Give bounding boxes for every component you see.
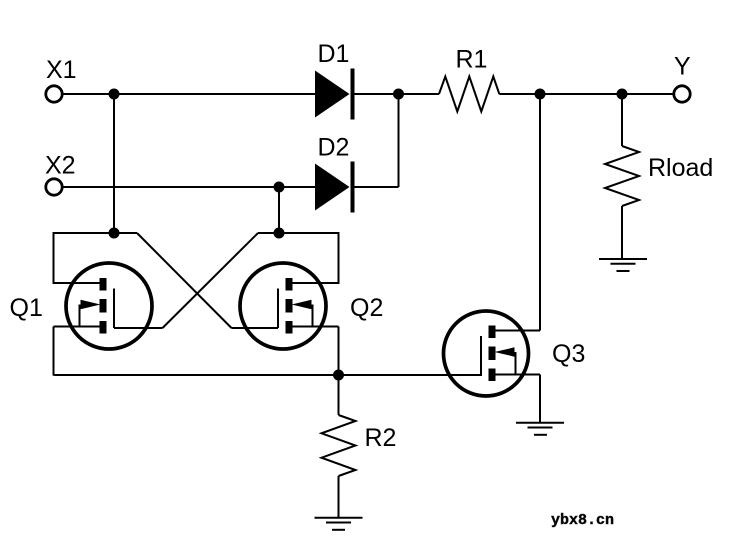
svg-text:Q1: Q1 (10, 294, 43, 322)
node junction D1/D2 outputs (393, 89, 404, 100)
wire bottom rail to Q3 gate (54, 374, 481, 376)
transistor Q1 (54, 263, 163, 349)
wire Q3 source down to ground (539, 375, 541, 424)
svg-text:X2: X2 (45, 152, 76, 180)
wire cross-couple left rail to Q2 gate (137, 233, 232, 328)
wire R1 to terminal Y (499, 93, 673, 95)
svg-text:Rload: Rload (648, 154, 713, 182)
wire Rload top (621, 94, 623, 146)
wire X2 to D2 anode (63, 186, 316, 188)
svg-text:D2: D2 (318, 134, 350, 162)
svg-text:Q3: Q3 (552, 340, 585, 368)
node junction left rail (109, 228, 120, 239)
wire Rload bottom (621, 206, 623, 259)
wire Q1 source down to bottom rail (53, 327, 55, 376)
svg-text:X1: X1 (46, 56, 77, 84)
node junction on X2 wire (274, 182, 285, 193)
wire R2 bottom (338, 476, 340, 518)
node junction on X1 wire (109, 89, 120, 100)
terminal X2 (46, 179, 62, 195)
ground for R2 (315, 518, 363, 530)
diode D2 (315, 162, 355, 213)
terminal X1 (46, 86, 62, 102)
wire D1 cathode to R1 (355, 93, 440, 95)
resistor R2 (322, 415, 356, 476)
node junction Q3 drain (535, 89, 546, 100)
terminal Y (674, 86, 690, 102)
ground for Rload (599, 259, 647, 271)
svg-text:ybx8.cn: ybx8.cn (551, 512, 614, 529)
svg-text:R2: R2 (365, 424, 397, 452)
ground for Q3 (516, 423, 564, 435)
wire right rail down to Q2 drain (338, 232, 340, 284)
node junction right rail (274, 228, 285, 239)
wire X1 junction down to left rail (113, 94, 115, 233)
resistor R1 (439, 77, 499, 112)
wire X1 to D1 anode (63, 93, 316, 95)
wire X2 junction down to right rail (278, 187, 280, 233)
wire R2 top (338, 375, 340, 415)
transistor Q2 (232, 263, 339, 349)
wire Q2 source down to bottom rail (338, 327, 340, 376)
node junction Rload (617, 89, 628, 100)
wire D2 output up to D1 output (398, 94, 400, 187)
wire cross-couple right rail to Q1 gate (163, 233, 259, 328)
transistor Q3 (444, 311, 541, 396)
resistor Rload (605, 146, 639, 206)
wire D2 cathode right (355, 186, 399, 188)
node junction R2 (333, 370, 344, 381)
svg-text:D1: D1 (318, 40, 350, 68)
svg-text:Q2: Q2 (350, 294, 383, 322)
diode D1 (315, 69, 355, 120)
svg-text:Y: Y (674, 53, 691, 81)
wire left rail top (54, 232, 138, 234)
wire left rail down to Q1 drain (53, 232, 55, 284)
wire right rail top (258, 232, 339, 234)
wire Q3 drain up to output node (539, 94, 541, 331)
svg-text:R1: R1 (456, 46, 488, 74)
